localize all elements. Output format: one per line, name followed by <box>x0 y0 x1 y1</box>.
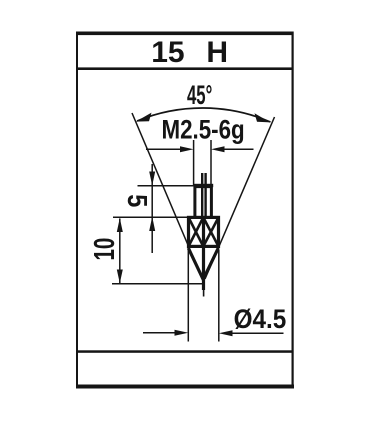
svg-text:45°: 45° <box>187 80 212 110</box>
threaded stem outline <box>195 187 212 217</box>
dimension 10 line with inside arrows <box>117 218 123 283</box>
footer separator line <box>77 350 292 353</box>
diameter extension line right <box>218 250 220 342</box>
M2.5 dimension line left segment with arrow <box>146 146 194 152</box>
svg-text:H: H <box>206 36 228 69</box>
svg-text:15: 15 <box>151 36 184 69</box>
body crosshatch left X <box>189 217 204 246</box>
svg-text:M2.5-6g: M2.5-6g <box>162 116 245 145</box>
dimension 5 line with outside arrows <box>149 164 155 253</box>
M2.5 dimension line right segment with arrow <box>211 146 254 152</box>
thread core line left <box>201 173 203 217</box>
diameter extension line left <box>187 250 189 342</box>
arc right arrowhead <box>255 113 271 122</box>
dimension 10 bottom extension line <box>112 283 203 285</box>
drawing frame border <box>76 32 294 389</box>
left 45-degree construction line <box>132 113 202 278</box>
stem top edge thick bar <box>194 184 214 187</box>
M2.5 extension line right <box>210 140 212 185</box>
thread core line right <box>204 173 206 217</box>
svg-text:Ø4.5: Ø4.5 <box>234 305 287 334</box>
center line through body and cone <box>202 217 205 290</box>
title text 15 H <box>151 36 228 69</box>
diameter dimension line right segment with arrow <box>219 330 284 336</box>
diameter dimension line left segment with arrow <box>143 330 188 336</box>
shared extension line at body top <box>113 216 187 218</box>
angle dimension arc <box>137 108 271 122</box>
svg-text:10: 10 <box>90 238 121 261</box>
M2.5 extension line left <box>193 140 195 185</box>
svg-text:5: 5 <box>122 194 152 207</box>
cone tip V <box>188 248 218 280</box>
arc left arrowhead <box>136 113 152 122</box>
body block outline <box>189 217 219 246</box>
body crosshatch right X <box>203 217 218 246</box>
right 45-degree construction line <box>205 117 275 279</box>
dimension 5 top extension line <box>138 185 195 187</box>
header separator line <box>77 67 292 70</box>
